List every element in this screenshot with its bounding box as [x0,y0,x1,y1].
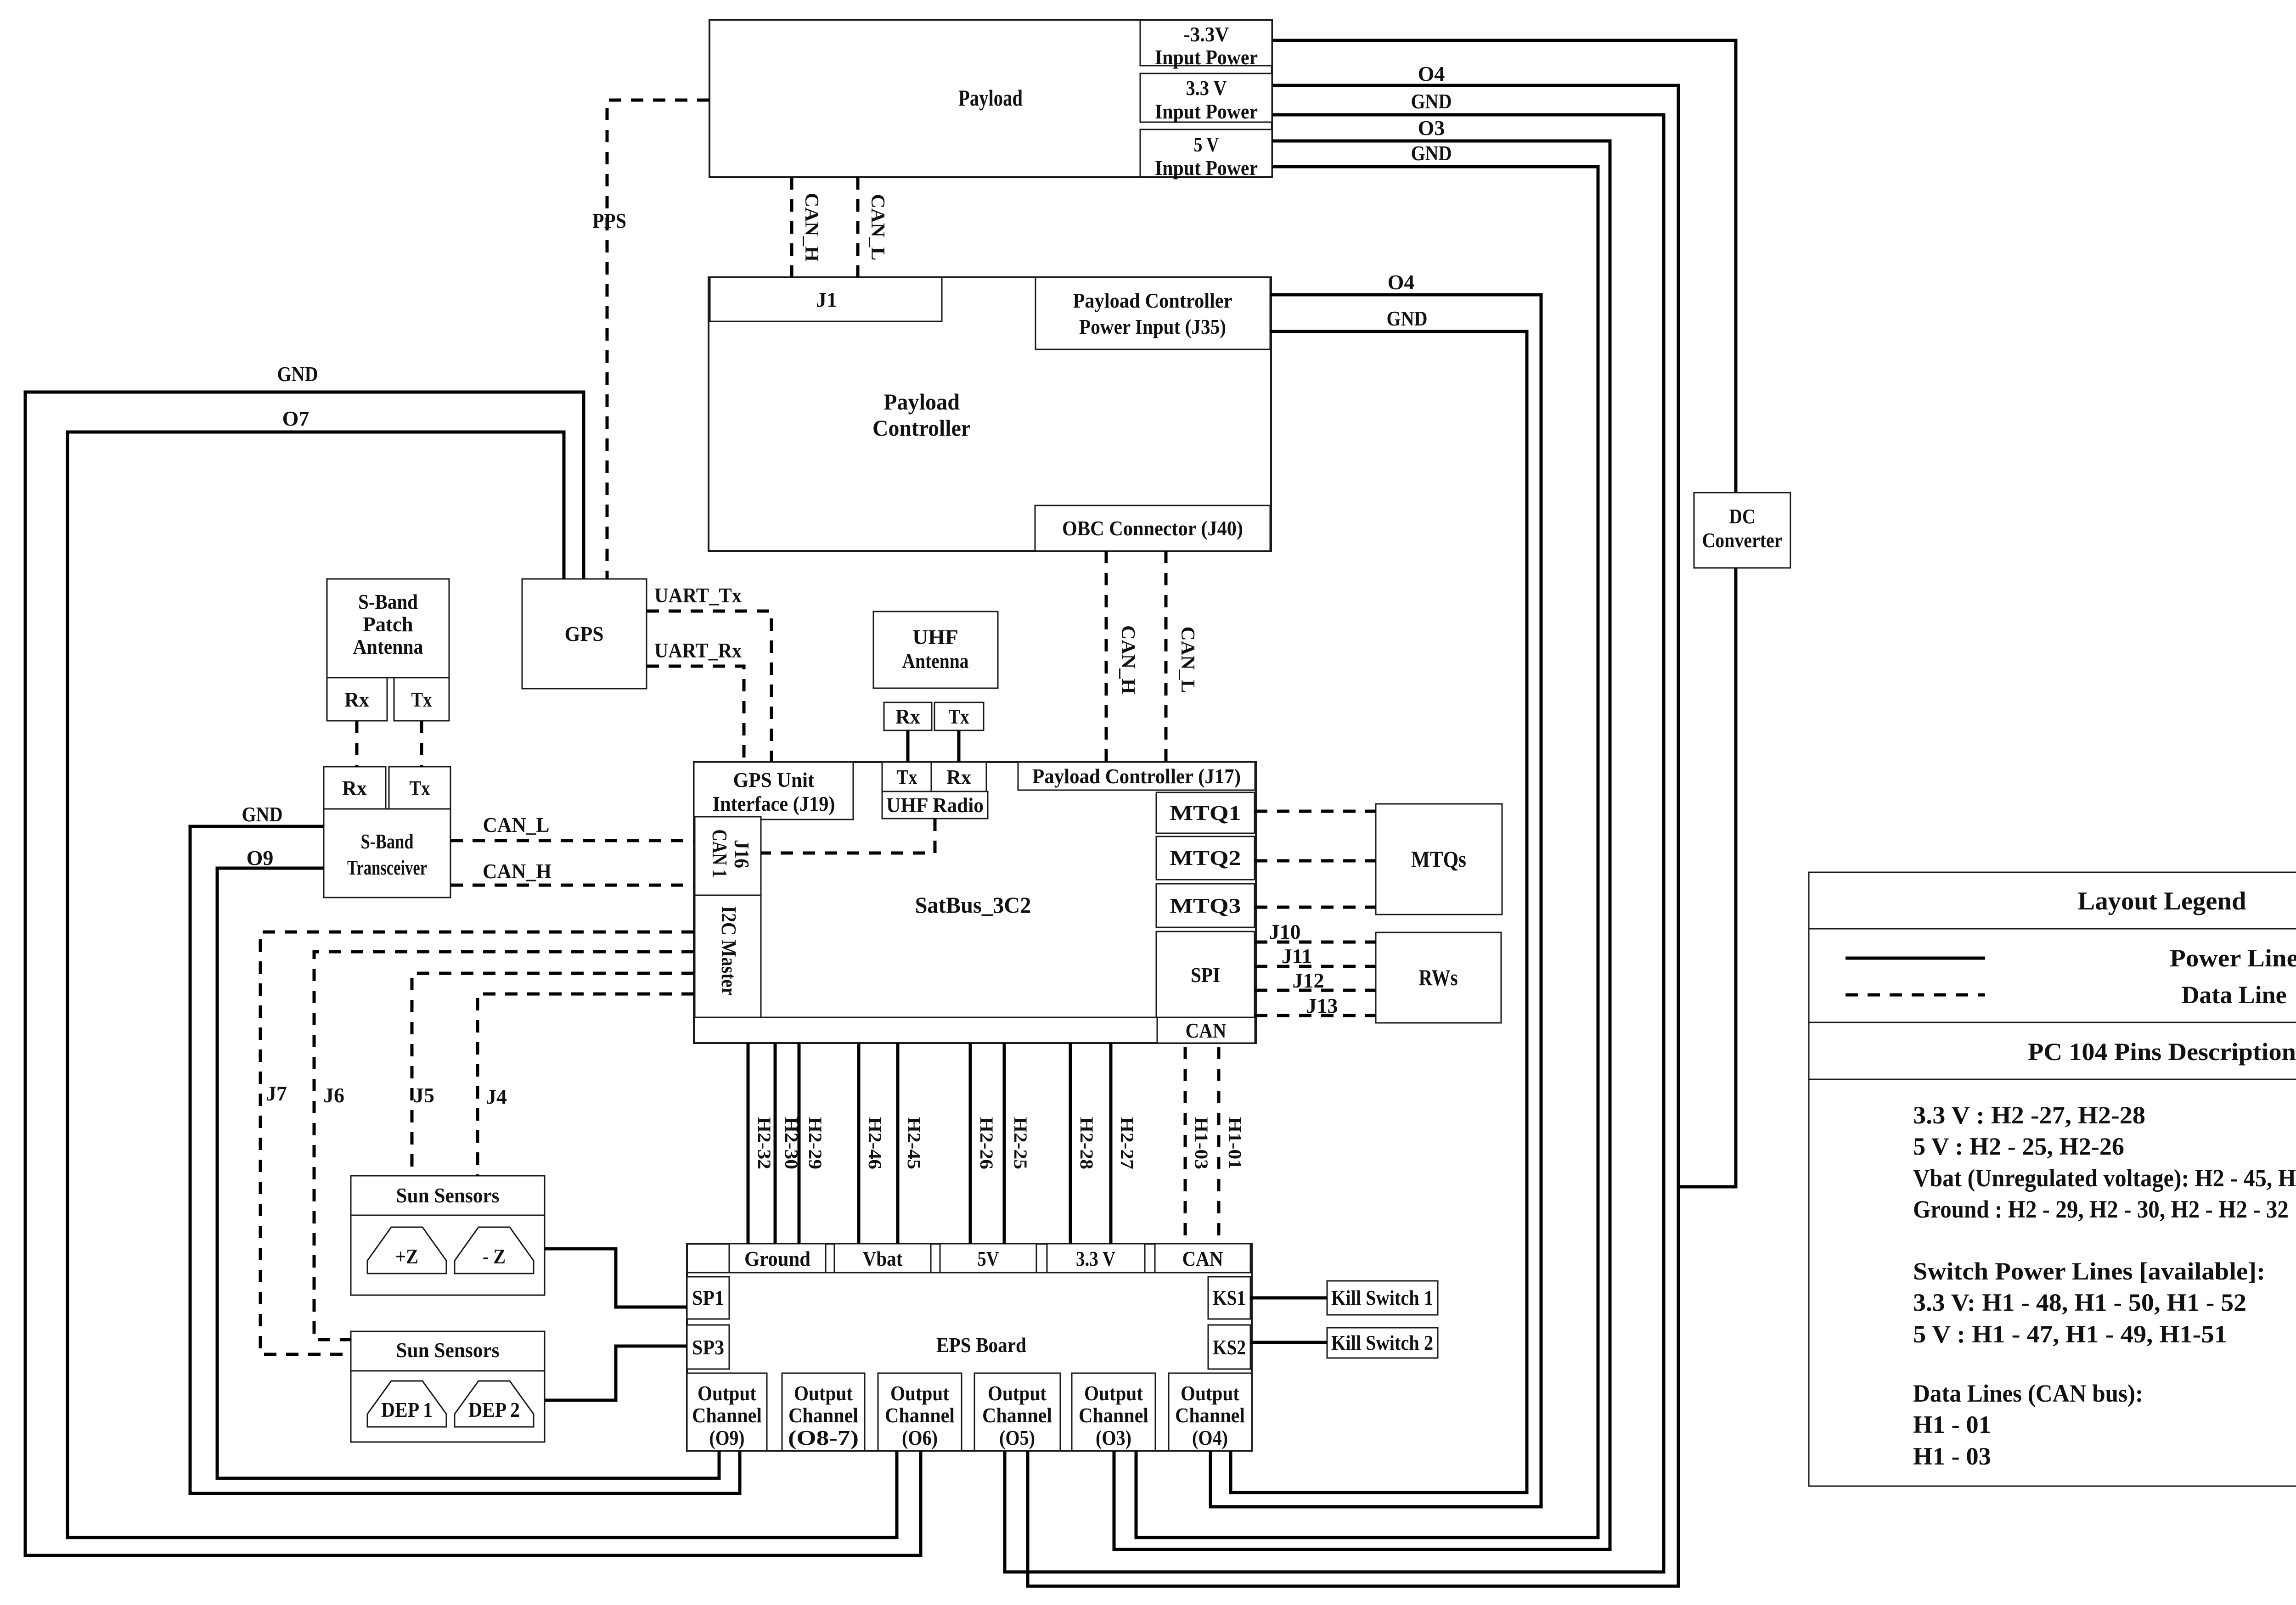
svg-text:CAN_H: CAN_H [801,193,822,262]
wire J7 I2C to Sun Sensors DEP [260,932,694,1354]
block Payload [709,20,1272,177]
svg-text:DC: DC [1729,505,1756,528]
connector MTQ2 [1156,836,1255,880]
wire J5 I2C to Sun Sensors [412,973,694,1176]
svg-text:J16: J16 [730,840,754,868]
svg-text:UHF Radio: UHF Radio [886,793,984,817]
svg-text:H1 - 01: H1 - 01 [1913,1411,1991,1438]
wire MTQ3 to MTQs [1255,906,1376,909]
svg-text:Patch: Patch [363,612,413,636]
svg-text:PC 104 Pins Description: PC 104 Pins Description [2028,1038,2296,1066]
wire UHF antenna Rx to SatBus Tx [906,730,910,762]
svg-text:Rx: Rx [342,776,367,800]
svg-text:GND: GND [1387,307,1428,330]
svg-text:S-Band: S-Band [361,830,414,853]
block -3.3V Input Power [1140,20,1272,66]
svg-text:MTQ3: MTQ3 [1170,894,1241,917]
svg-text:J1: J1 [816,288,837,311]
block S-Band Transceiver [324,809,450,898]
svg-text:GPS: GPS [565,622,604,645]
svg-text:Data Line: Data Line [2182,981,2287,1009]
svg-text:(O4): (O4) [1192,1426,1228,1449]
pin Rx of SatBus [931,762,986,791]
svg-text:H2-29: H2-29 [805,1117,826,1169]
wire UART_Tx GPS to J19 [647,611,771,762]
svg-text:Payload Controller (J17): Payload Controller (J17) [1032,764,1241,788]
svg-text:CAN_L: CAN_L [867,194,888,261]
svg-text:H2-25: H2-25 [1010,1117,1031,1169]
block Output Channel (O5) [974,1373,1060,1451]
svg-text:J5: J5 [413,1083,434,1107]
wire J12 SPI to RWs [1255,989,1376,992]
svg-text:Antenna: Antenna [902,649,969,673]
wire CAN_H payload to J1 [790,177,793,277]
wire J4 I2C to Sun Sensors [478,994,694,1176]
svg-text:Input Power: Input Power [1155,100,1258,123]
svg-text:J4: J4 [486,1085,507,1108]
svg-text:5 V : H2 - 25, H2-26: 5 V : H2 - 25, H2-26 [1913,1133,2124,1160]
svg-text:CAN_H: CAN_H [1117,625,1138,694]
wire CAN_L OBC J40 to J17 [1165,551,1168,762]
block Output Channel (O3) [1072,1373,1155,1451]
svg-text:O4: O4 [1418,62,1445,85]
svg-text:I2C Master: I2C Master [717,906,741,996]
svg-text:J7: J7 [266,1082,287,1105]
pin Tx of patch antenna [394,678,449,721]
wire CAN_H S-Band to CAN1 J16 [450,884,694,887]
svg-text:MTQ2: MTQ2 [1170,846,1241,870]
wire O4 from 3.3V input to output channel O5 [1028,85,1678,1586]
wire KS2 to Kill Switch 2 [1250,1341,1327,1344]
wire UHF antenna Tx to SatBus Rx [957,730,961,762]
block SatBus_3C2 [694,762,1256,1043]
svg-text:GND: GND [242,802,283,826]
wire GND from 3.3V input to output channel O5 [1005,115,1664,1572]
block GPS [522,579,647,689]
sensor DEP 2 [455,1381,534,1427]
block Output Channel (O8-7) [782,1373,865,1451]
wire CAN_L S-Band to CAN1 J16 [450,839,694,842]
connector J40 OBC Connector [1035,505,1270,551]
svg-text:+Z: +Z [395,1245,418,1268]
svg-text:O4: O4 [1388,270,1415,294]
wire DC converter to O4 line [1678,568,1736,1187]
wire Sun Sensors to SP1 [545,1249,687,1307]
svg-text:Vbat: Vbat [863,1247,903,1270]
svg-text:J11: J11 [1282,944,1312,968]
svg-text:Vbat (Unregulated voltage): H2: Vbat (Unregulated voltage): H2 - 45, H2 … [1913,1164,2296,1192]
svg-text:UHF: UHF [912,625,958,649]
pin wire H2-28 [1069,1043,1072,1244]
header 3.3 V [1047,1244,1145,1273]
sensor DEP 1 [367,1381,446,1427]
wire MTQ2 to MTQs [1255,859,1376,863]
pin wire H2-45 [896,1043,900,1244]
svg-text:Interface (J19): Interface (J19) [713,792,835,815]
svg-text:PPS: PPS [592,209,626,232]
svg-text:Kill Switch 2: Kill Switch 2 [1331,1331,1433,1354]
connector J19 GPS Unit Interface [694,762,853,819]
wire H1-03 SatBus CAN to EPS CAN [1184,1047,1187,1244]
block Sun Sensors +Z/-Z [351,1176,545,1295]
svg-text:CAN 1: CAN 1 [708,830,732,878]
svg-text:Transceiver: Transceiver [347,856,427,879]
svg-text:J10: J10 [1269,920,1301,943]
svg-text:Output: Output [890,1381,950,1405]
block 5 V Input Power [1140,129,1272,177]
connector J17 Payload Controller [1018,762,1255,790]
wire J10 SPI to RWs [1255,941,1376,944]
block MTQs [1376,804,1502,915]
svg-text:GND: GND [1411,141,1452,165]
svg-text:H1-01: H1-01 [1225,1117,1245,1169]
connector SP1 [687,1277,729,1319]
svg-text:3.3 V: 3.3 V [1186,76,1227,100]
header CAN of EPS [1155,1244,1250,1273]
svg-text:H2-27: H2-27 [1117,1117,1137,1169]
svg-text:Output: Output [1181,1381,1240,1405]
svg-text:- Z: - Z [483,1245,506,1268]
svg-text:Power Input (J35): Power Input (J35) [1079,315,1226,338]
wire PPS payload to GPS [607,100,709,579]
svg-text:Payload: Payload [958,85,1023,111]
svg-text:Output: Output [988,1381,1047,1405]
svg-text:Rx: Rx [946,765,971,789]
svg-text:Data Lines (CAN bus):: Data Lines (CAN bus): [1913,1380,2143,1407]
wire -3.3V to DC converter [1272,40,1736,493]
svg-text:(O6): (O6) [902,1426,938,1449]
svg-text:Tx: Tx [410,776,430,800]
svg-text:Payload: Payload [884,389,960,415]
wire O4 from J35 to output channel O4 [1210,295,1541,1507]
block EPS Board [687,1244,1252,1451]
block DC Converter [1694,493,1790,568]
svg-text:MTQs: MTQs [1411,846,1466,872]
connector CAN 1 J16 [695,817,761,895]
svg-text:DEP 2: DEP 2 [468,1398,520,1421]
connector KS2 [1208,1325,1250,1369]
wire CAN_L payload to J1 [856,177,860,277]
block Output Channel (O9) [687,1373,767,1451]
legend data line sample [1846,993,1985,997]
wire O7 rail GPS to output channel O6 [68,432,897,1538]
pin wire H2-27 [1109,1043,1113,1244]
block Output Channel (O6) [878,1373,962,1451]
wire J13 SPI to RWs [1255,1014,1376,1017]
wire CAN_H OBC J40 to J17 [1105,551,1108,762]
block UHF Antenna [873,612,998,688]
svg-text:(O3): (O3) [1096,1426,1131,1449]
svg-text:Input Power: Input Power [1155,156,1258,180]
svg-text:J12: J12 [1293,969,1324,992]
svg-text:Rx: Rx [344,688,369,711]
svg-text:H2-26: H2-26 [976,1117,997,1169]
connector I2C Master [695,895,761,1017]
svg-text:Channel: Channel [982,1403,1052,1427]
connector KS1 [1208,1277,1250,1319]
svg-text:Channel: Channel [885,1403,955,1427]
wire O9 S-Band transceiver to output channel O9 [217,868,719,1478]
svg-text:CAN_L: CAN_L [483,813,550,836]
svg-text:SP1: SP1 [692,1286,724,1309]
svg-text:Payload Controller: Payload Controller [1073,289,1232,312]
svg-text:3.3 V: 3.3 V [1076,1247,1115,1270]
pin Rx of UHF antenna [884,702,932,730]
block 3.3 V Input Power [1140,73,1272,122]
pin wire H2-30 [774,1043,777,1244]
connector SPI [1156,932,1255,1017]
wire H1-01 SatBus CAN to EPS CAN [1217,1047,1221,1244]
svg-text:H2-46: H2-46 [865,1117,885,1169]
connector SP3 [687,1325,729,1369]
svg-text:Channel: Channel [788,1403,858,1427]
svg-text:Antenna: Antenna [353,635,423,658]
legend power line sample [1846,957,1985,960]
svg-text:Tx: Tx [411,688,432,711]
wire UART_Rx GPS to J19 [647,666,744,762]
svg-text:Converter: Converter [1702,528,1783,552]
block Kill Switch 2 [1327,1328,1438,1358]
svg-text:Output: Output [698,1381,757,1405]
pin wire H2-29 [798,1043,801,1244]
svg-text:Sun Sensors: Sun Sensors [396,1184,500,1207]
svg-text:Output: Output [1084,1381,1143,1405]
connector J1 [710,277,942,321]
svg-text:J13: J13 [1306,994,1338,1017]
wire GND from J35 to output channel O4 [1231,331,1527,1493]
svg-text:Switch Power Lines [available]: Switch Power Lines [available]: [1913,1257,2265,1285]
wire patch antenna Rx to transceiver Rx [355,721,359,767]
pin wire H2-32 [747,1043,750,1244]
svg-text:MTQ1: MTQ1 [1170,801,1241,825]
svg-text:RWs: RWs [1419,965,1458,990]
svg-text:H2-28: H2-28 [1076,1117,1097,1169]
svg-text:(O8-7): (O8-7) [788,1426,859,1449]
svg-text:Ground: Ground [744,1247,810,1270]
svg-text:DEP 1: DEP 1 [381,1398,433,1421]
svg-text:S-Band: S-Band [358,590,418,613]
svg-text:GPS Unit: GPS Unit [733,768,815,791]
svg-text:Tx: Tx [897,765,917,789]
block UHF Radio [882,791,988,819]
svg-text:SP3: SP3 [692,1336,724,1359]
wire patch antenna Tx to transceiver Tx [420,721,423,767]
svg-text:Channel: Channel [692,1403,762,1427]
svg-text:J6: J6 [323,1083,344,1107]
header Ground [729,1244,826,1273]
svg-text:SPI: SPI [1191,963,1220,987]
pin Rx of S-Band transceiver [324,767,386,809]
pin Tx of S-Band transceiver [389,767,450,809]
svg-text:UART_Rx: UART_Rx [654,639,742,662]
svg-text:CAN: CAN [1186,1019,1227,1042]
svg-text:O3: O3 [1418,116,1445,140]
pin wire H2-26 [969,1043,972,1244]
wire UHF Radio to CAN1 J16 [761,819,935,853]
header Vbat [834,1244,931,1273]
block Payload Controller [709,277,1271,551]
block Output Channel (O4) [1169,1373,1252,1451]
svg-text:H2-45: H2-45 [904,1117,924,1169]
svg-text:5V: 5V [978,1247,999,1270]
svg-text:H2-30: H2-30 [781,1117,802,1169]
svg-text:Channel: Channel [1079,1403,1148,1427]
block Kill Switch 1 [1327,1281,1438,1315]
wire GND from 5V input to output channel O3 [1136,167,1598,1538]
svg-text:H1 - 03: H1 - 03 [1913,1442,1991,1470]
wire GND rail GPS to output channel O6 [25,392,921,1555]
svg-text:5 V: 5 V [1194,133,1219,156]
svg-text:UART_Tx: UART_Tx [654,584,742,607]
svg-text:CAN_H: CAN_H [483,859,551,883]
svg-text:CAN_L: CAN_L [1177,627,1198,693]
wire KS1 to Kill Switch 1 [1250,1296,1327,1300]
svg-text:OBC Connector (J40): OBC Connector (J40) [1062,516,1243,540]
svg-text:H1-03: H1-03 [1191,1117,1212,1169]
block Sun Sensors DEP [351,1331,545,1442]
svg-text:Rx: Rx [895,705,920,728]
block S-Band Patch Antenna [327,579,449,678]
block RWs [1376,932,1501,1023]
wire O3 from 5V input to output channel O3 [1114,141,1610,1549]
pin Tx of UHF antenna [934,702,984,730]
wire J11 SPI to RWs [1255,965,1376,968]
wire MTQ1 to MTQs [1255,810,1376,813]
svg-text:5 V : H1 - 47, H1 - 49, H1-51: 5 V : H1 - 47, H1 - 49, H1-51 [1913,1320,2227,1348]
svg-text:Ground : H2 - 29, H2 - 30, H2: Ground : H2 - 29, H2 - 30, H2 - H2 - 32 [1913,1195,2289,1223]
connector MTQ1 [1156,792,1255,833]
header 5V [940,1244,1036,1273]
wire GND S-Band transceiver to output channel O9 [190,826,740,1493]
svg-text:-3.3V: -3.3V [1184,22,1229,46]
svg-text:O7: O7 [282,407,310,430]
svg-text:Controller: Controller [872,415,971,441]
svg-text:Output: Output [794,1381,853,1405]
svg-text:KS2: KS2 [1213,1336,1246,1359]
svg-text:3.3 V: H1 - 48, H1 - 50, H1 -: 3.3 V: H1 - 48, H1 - 50, H1 - 52 [1913,1289,2246,1316]
sensor +Z [367,1227,446,1274]
pin wire H2-25 [1003,1043,1006,1244]
svg-text:Channel: Channel [1175,1403,1245,1427]
svg-text:(O9): (O9) [709,1426,745,1449]
pin Rx of patch antenna [327,678,387,721]
legend box [1809,872,2296,1486]
pin Tx of SatBus [882,762,931,791]
svg-text:(O5): (O5) [999,1426,1035,1449]
svg-text:KS1: KS1 [1213,1286,1246,1309]
connector MTQ3 [1156,884,1255,927]
wire J6 I2C to Sun Sensors DEP [314,952,694,1340]
svg-text:Power Line: Power Line [2170,944,2296,972]
svg-text:Input Power: Input Power [1155,45,1258,69]
svg-text:Kill Switch 1: Kill Switch 1 [1331,1286,1433,1309]
connector J35 Payload Controller Power Input [1035,277,1270,349]
svg-text:CAN: CAN [1182,1247,1223,1270]
wire Sun Sensors to SP3 [545,1346,687,1400]
svg-text:3.3 V : H2 -27, H2-28: 3.3 V : H2 -27, H2-28 [1913,1101,2145,1129]
svg-text:H2-32: H2-32 [754,1117,775,1169]
svg-text:GND: GND [1411,90,1452,113]
svg-text:EPS Board: EPS Board [936,1333,1026,1357]
svg-text:SatBus_3C2: SatBus_3C2 [915,892,1031,918]
sensor -Z [455,1227,534,1274]
svg-text:O9: O9 [247,846,274,870]
connector CAN of SatBus [1157,1017,1255,1043]
pin wire H2-46 [857,1043,861,1244]
svg-text:Layout Legend: Layout Legend [2078,887,2246,915]
svg-text:Tx: Tx [949,705,969,728]
svg-text:GND: GND [277,362,318,386]
svg-text:Sun Sensors: Sun Sensors [396,1338,500,1362]
